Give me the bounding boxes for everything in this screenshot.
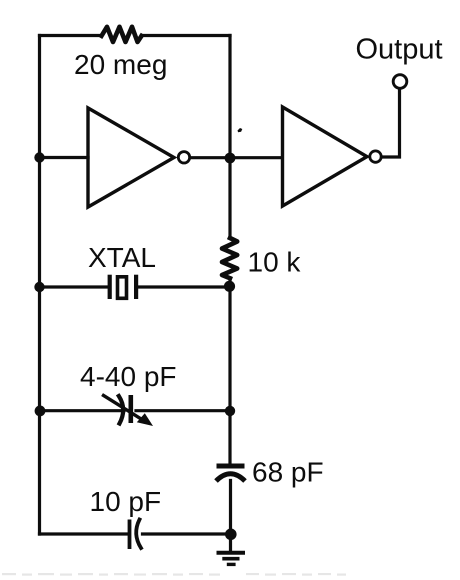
capacitor C2 68 pF top plate <box>217 464 245 469</box>
pin bubble U2 <box>370 151 381 162</box>
capacitor C3 10 pF curved plate <box>136 520 141 549</box>
resistor R1 20 meg <box>102 27 142 42</box>
op-amp U1 inverter <box>88 108 174 207</box>
wire trimmer net right <box>136 409 230 412</box>
wire top left segment <box>40 34 102 37</box>
wire top right segment <box>142 34 231 37</box>
ground bar 3 <box>227 563 236 566</box>
wire left rail <box>38 36 41 535</box>
svg-text:XTAL: XTAL <box>88 242 156 273</box>
node junction dot D <box>224 281 235 292</box>
crystal Y1 left plate <box>108 275 112 299</box>
capacitor C1 straight plate <box>129 395 134 423</box>
node junction dot F <box>225 406 235 416</box>
svg-text:20 meg: 20 meg <box>74 49 167 80</box>
wire bottom right <box>143 532 231 535</box>
wire right rail upper <box>228 36 231 239</box>
wire inverter1 input <box>40 156 89 159</box>
scan noise row <box>2 573 16 575</box>
wire trimmer net left <box>40 409 125 412</box>
wire bottom <box>40 532 127 535</box>
svg-text:10 pF: 10 pF <box>90 486 162 517</box>
crystal Y1 right plate <box>134 275 138 299</box>
node Output terminal <box>393 75 407 89</box>
node junction dot C <box>34 282 44 292</box>
pin bubble U1 <box>178 152 189 163</box>
op-amp U2 inverter <box>283 107 368 206</box>
wire XTAL net left <box>40 285 108 288</box>
svg-text:4-40 pF: 4-40 pF <box>80 361 177 392</box>
wire XTAL net right <box>138 285 230 288</box>
wire right rail lower <box>229 481 232 552</box>
svg-text:Output: Output <box>356 34 443 66</box>
node junction dot G <box>225 529 237 541</box>
node junction dot A <box>34 152 44 162</box>
ground bar 2 <box>222 557 239 561</box>
node junction dot E <box>35 406 46 417</box>
node junction dot B <box>225 153 236 164</box>
wire output jog <box>382 89 400 157</box>
resistor R2 10 k <box>222 238 237 278</box>
svg-text:10 k: 10 k <box>248 247 302 278</box>
capacitor C1 4-40 pF curved plate <box>119 396 123 424</box>
capacitor C1 arrowhead <box>137 413 153 426</box>
svg-text:68 pF: 68 pF <box>252 457 324 488</box>
wire right rail middle <box>228 278 231 463</box>
crystal Y1 body <box>118 277 127 299</box>
capacitor C1 arrow <box>104 396 143 420</box>
speck artifact <box>238 128 243 132</box>
wire inverter1 output <box>190 156 282 159</box>
ground bar 1 <box>217 551 246 555</box>
capacitor C3 10 pF straight plate <box>128 520 132 550</box>
capacitor C2 68 pF curved plate <box>216 474 245 481</box>
